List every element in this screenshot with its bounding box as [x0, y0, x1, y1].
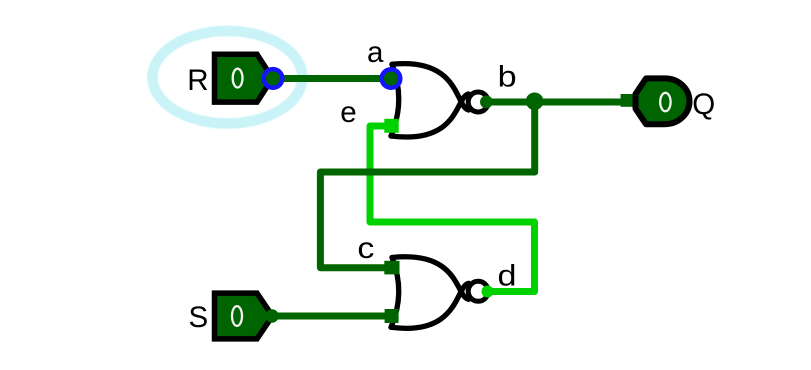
blue ring at node a: [382, 69, 401, 88]
pin S output point: [265, 309, 278, 322]
wire b->Q (dark green): [491, 99, 626, 106]
pin S value 0: [232, 306, 242, 326]
wire end square at node c: [384, 261, 399, 275]
selection halo around pin R: [152, 31, 302, 124]
svg-text:S: S: [189, 301, 209, 334]
NOR gate U1 bubble: [468, 92, 488, 112]
pin Q value 0: [660, 93, 670, 111]
NOR gate U2 output dot: [482, 286, 494, 298]
input pin R: [215, 54, 273, 102]
wire end square at Q input: [621, 94, 634, 107]
output pin Q: [636, 78, 690, 124]
NOR gate U2 bubble: [468, 281, 488, 301]
svg-text:R: R: [187, 64, 208, 97]
wire net d->e (bright green, value 1): [370, 126, 535, 292]
wire S->gate2 (dark green): [272, 313, 387, 320]
wire end square at node e: [384, 119, 398, 133]
wire end square at gate2 lower input: [385, 309, 399, 323]
NOR gate U1 body: [391, 64, 469, 137]
input pin S: [215, 293, 273, 339]
svg-text:a: a: [367, 36, 384, 69]
pin R value 0: [233, 69, 243, 88]
blue ring at R output: [264, 69, 283, 88]
svg-text:e: e: [340, 96, 356, 129]
wire net b->c (dark green, value 0): [320, 102, 534, 268]
junction node b: [526, 92, 544, 110]
svg-text:Q: Q: [692, 88, 715, 121]
svg-text:b: b: [498, 61, 517, 94]
svg-text:d: d: [498, 260, 517, 293]
wire R->a (dark green): [272, 75, 391, 82]
NOR gate U2 body: [391, 257, 469, 329]
svg-text:c: c: [357, 232, 374, 265]
NOR gate U1 output dot: [480, 96, 493, 109]
